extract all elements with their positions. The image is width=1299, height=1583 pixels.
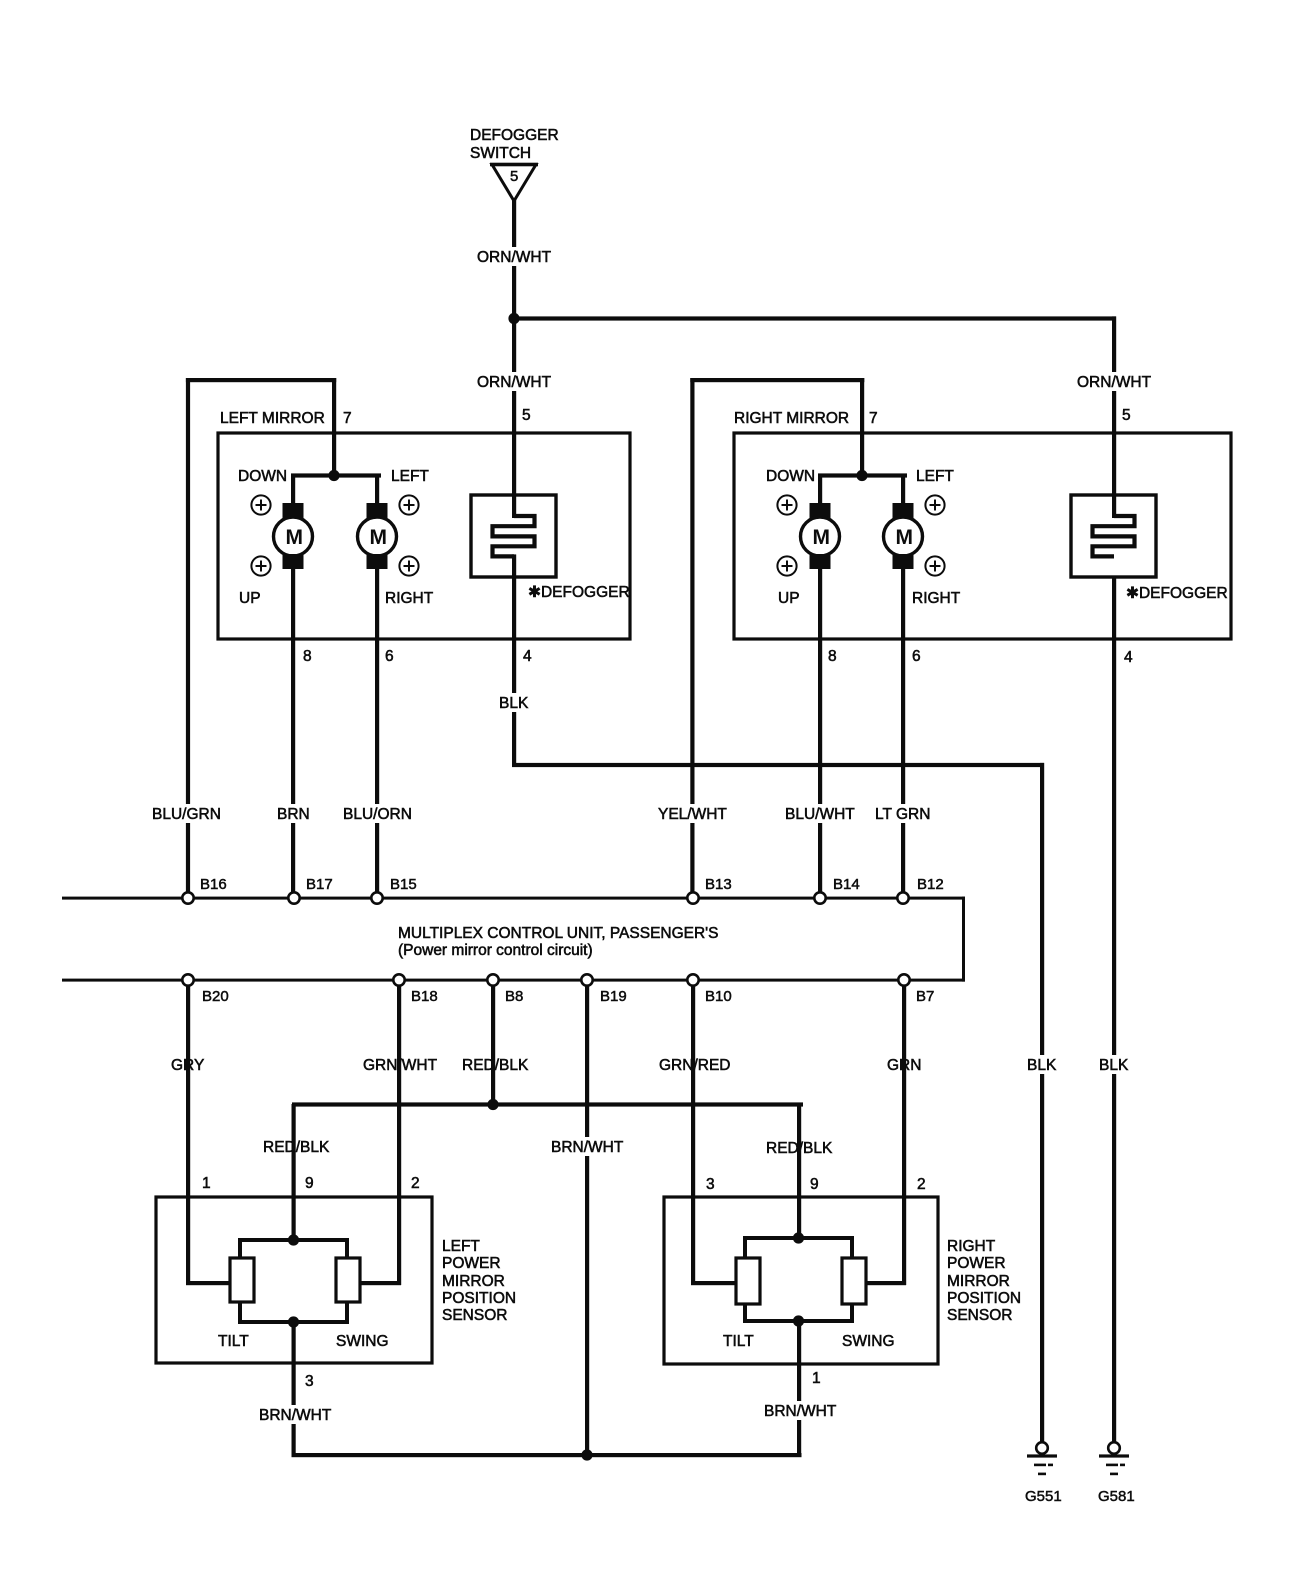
svg-text:B10: B10 <box>705 988 732 1005</box>
left power mirror position sensor box <box>156 1197 432 1363</box>
label wire GRY <box>169 1055 207 1074</box>
terminal B14 <box>814 876 859 904</box>
svg-text:(Power mirror control circuit): (Power mirror control circuit) <box>398 942 593 959</box>
left sensor swing resistor <box>336 1258 360 1302</box>
wire M4 down to B12 <box>901 567 905 893</box>
wire ORN/WHT from switch down to junction <box>512 199 516 320</box>
svg-text:6: 6 <box>912 648 921 665</box>
label ORN/WHT left pin 5 <box>475 372 553 391</box>
svg-text:7: 7 <box>869 410 878 427</box>
terminal B20 <box>182 974 228 1005</box>
svg-text:UP: UP <box>778 590 800 607</box>
label ORN/WHT upper <box>475 247 553 266</box>
svg-text:G581: G581 <box>1098 1488 1135 1505</box>
svg-text:SWING: SWING <box>842 1333 895 1350</box>
svg-text:LEFT MIRROR: LEFT MIRROR <box>220 410 325 427</box>
label wire BLK ground 2 <box>1097 1055 1130 1074</box>
svg-text:B13: B13 <box>705 876 732 893</box>
node RED/BLK junction at B8 <box>487 1099 498 1110</box>
svg-text:B17: B17 <box>306 876 333 893</box>
svg-text:✱DEFOGGER: ✱DEFOGGER <box>528 584 630 601</box>
terminal B10 <box>687 974 731 1005</box>
svg-text:4: 4 <box>523 648 532 665</box>
svg-text:3: 3 <box>305 1373 314 1390</box>
wire GRY B20 down to left sensor pin 1 <box>186 985 190 1285</box>
wire BLK horizontal run <box>512 763 1044 767</box>
multiplex control unit bottom edge <box>62 979 965 982</box>
wire left sensor pin 9 vertical <box>292 1104 296 1242</box>
wire BLK down to ground G551 <box>1040 763 1044 1443</box>
svg-text:BLU/WHT: BLU/WHT <box>785 806 855 823</box>
wire defogger left down to BLK run <box>512 554 516 766</box>
svg-text:2: 2 <box>411 1175 420 1192</box>
terminal B18 <box>393 974 437 1005</box>
wire right sensor pin2 horizontal stub <box>862 1281 906 1285</box>
wire ORN/WHT junction down to left defogger pin 5 <box>512 318 516 516</box>
label BLK left <box>497 693 530 712</box>
right mirror box <box>734 433 1231 639</box>
label BRN/WHT bottom right <box>762 1401 838 1420</box>
motor M2 left/right top terminal <box>367 503 388 519</box>
polarity mark plus lower-left M3 <box>777 556 796 575</box>
wire GRN B7 down to right sensor pin 2 <box>902 985 906 1285</box>
wire right sensor pin 9 vertical <box>797 1104 801 1240</box>
wire B13 feed: vertical drop at left of right mirror down to B13 <box>690 378 694 893</box>
motor M3 up/down top terminal <box>810 503 831 519</box>
wire M1 down to B17 <box>291 567 295 893</box>
svg-text:7: 7 <box>343 410 352 427</box>
wire left sensor pin 3 down <box>292 1320 296 1457</box>
wire M2 down to B15 <box>375 567 379 893</box>
polarity mark plus upper-left M1 <box>251 495 270 514</box>
defogger switch connector 5 (triangle) <box>490 163 538 201</box>
label BRN/WHT B19 <box>549 1137 625 1156</box>
svg-text:9: 9 <box>810 1176 819 1193</box>
motor M1 up/down <box>274 517 313 556</box>
node motor feed junction left <box>328 470 339 481</box>
right sensor inner frame <box>745 1238 852 1321</box>
wire pin 7 vertical into box <box>332 378 336 477</box>
polarity mark plus lower-right M2 <box>399 556 418 575</box>
svg-text:LEFT: LEFT <box>916 468 954 485</box>
svg-text:SENSOR: SENSOR <box>442 1307 507 1324</box>
svg-text:MIRROR: MIRROR <box>442 1273 505 1290</box>
svg-text:B18: B18 <box>411 988 438 1005</box>
svg-text:8: 8 <box>828 648 837 665</box>
label ORN/WHT right pin 5 <box>1075 372 1153 391</box>
polarity mark plus lower-left M1 <box>251 556 270 575</box>
label wire GRN <box>885 1055 923 1074</box>
svg-text:6: 6 <box>385 648 394 665</box>
defogger heater element right (meander) <box>1093 516 1135 556</box>
svg-text:LEFT: LEFT <box>391 468 429 485</box>
motor M1 up/down top terminal <box>283 503 304 519</box>
terminal B15 <box>371 876 416 904</box>
wire B16 feed: vertical drop at far left down to B16 <box>186 378 190 893</box>
motor M2 left/right <box>358 517 397 556</box>
right power mirror position sensor box <box>664 1197 938 1364</box>
wire RED/BLK B8 down to junction <box>491 985 495 1106</box>
motor M4 left/right top terminal <box>893 503 914 519</box>
wire left sensor pin1 horizontal stub <box>186 1281 232 1285</box>
label wire RED/BLK from B8 <box>460 1055 530 1074</box>
svg-text:M: M <box>896 526 914 549</box>
label wire GRN/RED <box>657 1055 732 1074</box>
svg-text:SWING: SWING <box>336 1333 389 1350</box>
svg-text:DOWN: DOWN <box>766 468 815 485</box>
svg-text:RED/BLK: RED/BLK <box>263 1139 330 1156</box>
label wire YEL/WHT <box>656 804 729 823</box>
svg-text:MIRROR: MIRROR <box>947 1273 1010 1290</box>
label RED/BLK left pin 9 <box>261 1137 331 1156</box>
left mirror box <box>218 433 630 639</box>
svg-text:4: 4 <box>1124 649 1133 666</box>
svg-text:B16: B16 <box>200 876 227 893</box>
svg-text:ORN/WHT: ORN/WHT <box>477 374 552 391</box>
svg-text:BRN: BRN <box>277 806 310 823</box>
label wire BRN <box>275 804 312 823</box>
svg-text:3: 3 <box>706 1176 715 1193</box>
terminal B12 <box>897 876 943 904</box>
svg-text:9: 9 <box>305 1175 314 1192</box>
label RED/BLK right pin 9 <box>764 1138 834 1157</box>
node left sensor bottom <box>288 1316 299 1327</box>
svg-text:RIGHT MIRROR: RIGHT MIRROR <box>734 410 849 427</box>
svg-text:5: 5 <box>510 168 518 185</box>
right sensor tilt resistor <box>736 1258 760 1304</box>
polarity mark plus upper-right M2 <box>399 495 418 514</box>
terminal B8 <box>487 974 523 1005</box>
motor M2 bottom terminal <box>367 554 388 569</box>
svg-text:B7: B7 <box>916 988 934 1005</box>
svg-text:ORN/WHT: ORN/WHT <box>1077 374 1152 391</box>
label BRN/WHT bottom left <box>257 1405 333 1424</box>
svg-text:POWER: POWER <box>442 1255 501 1272</box>
wire BRN/WHT bottom run <box>292 1453 802 1457</box>
svg-text:TILT: TILT <box>723 1333 754 1350</box>
svg-text:B20: B20 <box>202 988 229 1005</box>
svg-text:✱DEFOGGER: ✱DEFOGGER <box>1126 585 1228 602</box>
wire pin5 inside defogger box left <box>512 495 516 518</box>
wire ORN/WHT right vertical down to right defogger pin 5 <box>1112 316 1116 516</box>
defogger heater element left (meander) <box>493 516 535 556</box>
svg-text:UP: UP <box>239 590 261 607</box>
svg-text:BLU/GRN: BLU/GRN <box>152 806 221 823</box>
wire right sensor pin3 horizontal stub <box>691 1281 738 1285</box>
svg-text:RIGHT: RIGHT <box>385 590 434 607</box>
wire stub to motor M4 <box>901 475 905 505</box>
node left sensor top <box>288 1234 299 1245</box>
label wire BLU/ORN <box>341 804 414 823</box>
terminal B19 <box>581 974 626 1005</box>
ground G581 <box>1098 1442 1135 1505</box>
svg-text:BLK: BLK <box>1099 1057 1129 1074</box>
motor M4 left/right <box>884 517 923 556</box>
wire pin5 inside defogger box right <box>1112 495 1116 518</box>
svg-text:BRN/WHT: BRN/WHT <box>259 1407 332 1424</box>
wire motor top bar right <box>818 473 907 477</box>
polarity mark plus lower-right M4 <box>925 556 944 575</box>
svg-text:B14: B14 <box>833 876 860 893</box>
svg-text:5: 5 <box>1122 407 1131 424</box>
svg-text:BLK: BLK <box>1027 1057 1057 1074</box>
svg-text:DOWN: DOWN <box>238 468 287 485</box>
wire RED/BLK horizontal run to both pin 9 <box>292 1102 803 1106</box>
left sensor inner frame <box>240 1240 347 1322</box>
right sensor swing resistor <box>842 1258 866 1304</box>
node ORN/WHT junction <box>508 313 519 324</box>
node right sensor bottom <box>793 1315 804 1326</box>
motor M4 bottom terminal <box>893 554 914 569</box>
wire ORN/WHT horizontal run to right mirror <box>512 316 1116 320</box>
motor M3 up/down <box>801 517 840 556</box>
svg-text:RED/BLK: RED/BLK <box>462 1057 529 1074</box>
svg-text:B15: B15 <box>390 876 417 893</box>
label LEFT POWER MIRROR POSITION SENSOR <box>442 1238 516 1324</box>
node BRN/WHT bottom junction <box>581 1449 592 1460</box>
defogger switch label <box>470 127 559 162</box>
motor M3 bottom terminal <box>810 554 831 569</box>
wire BRN/WHT B19 down to bottom run <box>585 985 589 1457</box>
svg-text:M: M <box>813 526 831 549</box>
svg-text:LEFT: LEFT <box>442 1238 480 1255</box>
wire left sensor pin2 horizontal stub <box>359 1281 401 1285</box>
svg-text:POSITION: POSITION <box>442 1290 516 1307</box>
svg-text:1: 1 <box>812 1370 821 1387</box>
svg-text:B12: B12 <box>917 876 944 893</box>
wire M3 down to B14 <box>818 567 822 893</box>
svg-text:2: 2 <box>917 1176 926 1193</box>
node right sensor top <box>793 1232 804 1243</box>
label wire GRN/WHT <box>361 1055 439 1074</box>
motor M1 bottom terminal <box>283 554 304 569</box>
svg-text:5: 5 <box>522 407 531 424</box>
svg-text:ORN/WHT: ORN/WHT <box>477 249 552 266</box>
svg-text:B19: B19 <box>600 988 627 1005</box>
defogger element left (box) <box>471 495 556 577</box>
terminal B7 <box>898 974 934 1005</box>
wire top horizontal to pin 7 right <box>690 378 864 382</box>
svg-text:B8: B8 <box>505 988 523 1005</box>
svg-text:8: 8 <box>303 648 312 665</box>
svg-text:POWER: POWER <box>947 1255 1006 1272</box>
polarity mark plus upper-left M3 <box>777 495 796 514</box>
svg-text:RIGHT: RIGHT <box>947 1238 996 1255</box>
wire pin 7 vertical into right box <box>860 378 864 477</box>
label wire BLU/WHT <box>783 804 857 823</box>
svg-text:SWITCH: SWITCH <box>470 145 531 162</box>
terminal B13 <box>687 876 731 904</box>
label wire BLU/GRN <box>150 804 223 823</box>
svg-text:BRN/WHT: BRN/WHT <box>764 1403 837 1420</box>
svg-text:POSITION: POSITION <box>947 1290 1021 1307</box>
node motor feed junction right <box>856 470 867 481</box>
terminal B17 <box>288 876 332 904</box>
polarity mark plus upper-right M4 <box>925 495 944 514</box>
wire top horizontal to pin 7 <box>186 378 336 382</box>
svg-text:M: M <box>370 526 388 549</box>
svg-text:BLU/ORN: BLU/ORN <box>343 806 412 823</box>
left sensor tilt resistor <box>230 1258 254 1302</box>
terminal B16 <box>182 876 226 904</box>
svg-text:TILT: TILT <box>218 1333 249 1350</box>
svg-text:LT GRN: LT GRN <box>875 806 930 823</box>
label wire BLK ground 1 <box>1025 1055 1058 1074</box>
wire stub to motor M2 <box>375 475 379 505</box>
label wire LT GRN <box>873 804 932 823</box>
svg-text:BRN/WHT: BRN/WHT <box>551 1139 624 1156</box>
wire GRN/RED B10 down to right sensor pin 3 <box>691 985 695 1285</box>
svg-text:SENSOR: SENSOR <box>947 1307 1012 1324</box>
svg-text:G551: G551 <box>1025 1488 1062 1505</box>
svg-text:MULTIPLEX CONTROL UNIT, PASSEN: MULTIPLEX CONTROL UNIT, PASSENGER'S <box>398 925 718 942</box>
multiplex control unit right edge <box>962 897 965 982</box>
svg-text:RIGHT: RIGHT <box>912 590 961 607</box>
wire stub to motor M3 <box>818 475 822 505</box>
wire right sensor pin 1 down <box>797 1319 801 1457</box>
wire stub to motor M1 <box>291 475 295 505</box>
ground G551 <box>1025 1442 1062 1505</box>
wire GRN/WHT B18 down to left sensor pin 2 <box>397 985 401 1285</box>
multiplex control unit top edge <box>62 897 965 900</box>
svg-text:DEFOGGER: DEFOGGER <box>470 127 559 144</box>
wire BLK right defogger down to ground G581 <box>1112 554 1116 1442</box>
svg-text:M: M <box>286 526 304 549</box>
svg-text:YEL/WHT: YEL/WHT <box>658 806 727 823</box>
label RIGHT POWER MIRROR POSITION SENSOR <box>947 1238 1021 1324</box>
wire motor top bar left <box>291 473 381 477</box>
svg-text:1: 1 <box>202 1175 211 1192</box>
svg-text:BLK: BLK <box>499 695 529 712</box>
defogger element right (box) <box>1071 495 1156 577</box>
